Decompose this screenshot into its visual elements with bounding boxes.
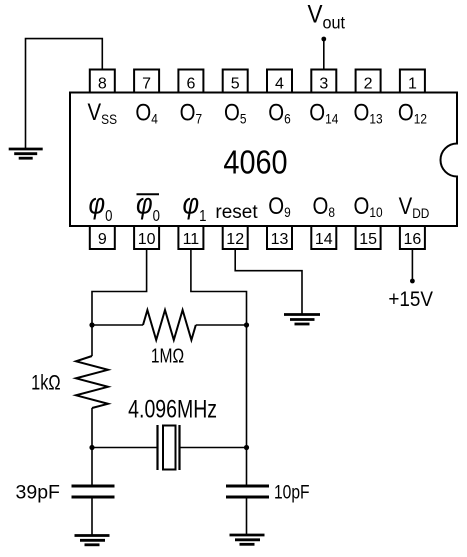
node Vout terminal dot — [321, 37, 326, 42]
pin label O5 — [224, 99, 246, 127]
wire pin 12 to ground — [235, 249, 302, 314]
value label 4.096MHz — [128, 395, 217, 423]
pin 6 — [178, 70, 203, 93]
svg-text:15: 15 — [359, 231, 377, 248]
svg-text:1MΩ: 1MΩ — [151, 345, 184, 367]
junction dot (crystal left / left rail) — [89, 445, 94, 450]
wire pin 11 to right rail — [191, 249, 247, 325]
value label 10pF — [274, 481, 310, 503]
svg-text:7: 7 — [142, 76, 151, 93]
junction dot (1MΩ left / left rail) — [89, 322, 94, 327]
pin 2 — [356, 70, 381, 93]
wire crystal right lead — [180, 447, 247, 449]
pin label O14 — [309, 99, 338, 127]
svg-text:6: 6 — [186, 76, 195, 93]
capacitor 39pF — [72, 486, 115, 497]
pin label O7 — [180, 99, 202, 127]
svg-text:13: 13 — [271, 231, 289, 248]
pin 14 — [311, 226, 336, 249]
pin label phi0 — [89, 187, 113, 226]
overline of phi0-bar — [137, 193, 160, 195]
node label Vout — [308, 0, 346, 32]
ground (under 10pF) — [230, 535, 265, 544]
ground (pin 12) — [284, 315, 320, 325]
value label 1kΩ — [31, 371, 61, 394]
pin label O13 — [354, 99, 383, 127]
crystal 4.096MHz — [158, 425, 180, 470]
wire Vout to pin 3 — [323, 39, 325, 70]
pin 5 — [223, 70, 248, 93]
pin label O6 — [268, 99, 290, 127]
junction dot (crystal right / right rail) — [244, 445, 249, 450]
pin 13 — [267, 226, 292, 249]
pin label O10 — [354, 192, 383, 220]
svg-text:2: 2 — [364, 76, 373, 93]
svg-text:8: 8 — [98, 76, 107, 93]
capacitor 10pF — [226, 486, 269, 497]
pin 4 — [267, 70, 292, 93]
wire left rail above 1kΩ — [91, 325, 93, 356]
op-amp U1 body (4060 IC outline with right-edge notch) — [70, 93, 457, 227]
ground (under 39pF) — [75, 536, 110, 545]
svg-text:11: 11 — [183, 231, 200, 248]
svg-text:39pF: 39pF — [16, 482, 61, 504]
wire 10pF to ground — [246, 497, 248, 534]
pin label phi0-bar — [136, 187, 160, 226]
wire pin 16 to +15V terminal — [411, 249, 413, 279]
svg-text:9: 9 — [98, 231, 107, 248]
svg-text:4: 4 — [275, 76, 284, 93]
pin label O12 — [398, 99, 427, 127]
svg-text:1kΩ: 1kΩ — [31, 371, 61, 394]
wire 39pF to ground — [91, 497, 93, 535]
pin label O9 — [268, 192, 290, 220]
resistor 1kΩ (vertical) — [76, 356, 108, 408]
wire crystal left lead — [92, 447, 158, 449]
wire pin 8 to top-left ground — [26, 39, 103, 148]
pin 11 — [178, 226, 203, 249]
value label 1MΩ — [151, 345, 184, 367]
pin 7 — [134, 70, 159, 93]
wire pin 10 to left rail — [92, 249, 147, 325]
junction dot (1MΩ right / right rail) — [244, 322, 249, 327]
svg-text:4.096MHz: 4.096MHz — [128, 395, 217, 423]
pin label VDD — [399, 192, 430, 221]
node +15V terminal dot — [410, 279, 415, 284]
svg-text:10pF: 10pF — [274, 481, 310, 503]
pin 8 — [90, 70, 115, 93]
pin label O4 — [135, 99, 157, 127]
pin 16 — [400, 226, 425, 249]
pin 9 — [90, 226, 115, 249]
svg-text:12: 12 — [226, 231, 244, 248]
wire right rail pins to crystal — [246, 325, 248, 486]
svg-text:reset: reset — [215, 202, 258, 223]
pin 15 — [356, 226, 381, 249]
svg-text:1: 1 — [408, 76, 417, 93]
pin 12 — [223, 226, 248, 249]
svg-text:14: 14 — [315, 231, 333, 248]
pin 1 — [400, 70, 425, 93]
svg-text:+15V: +15V — [388, 288, 433, 311]
svg-text:10: 10 — [138, 231, 156, 248]
resistor 1MΩ (horizontal) — [92, 310, 247, 340]
supply label +15V — [388, 288, 433, 311]
pin label VSS — [88, 98, 118, 127]
IC part number 4060 — [223, 144, 287, 181]
svg-text:5: 5 — [231, 76, 240, 93]
svg-text:16: 16 — [404, 231, 422, 248]
svg-text:3: 3 — [319, 76, 328, 93]
svg-text:4060: 4060 — [223, 144, 287, 181]
pin label phi1 — [183, 187, 207, 226]
pin 3 — [311, 70, 336, 93]
wire left rail below 1kΩ — [91, 408, 93, 486]
pin label O8 — [313, 192, 335, 220]
pin 10 — [134, 226, 159, 249]
ground (top left) — [9, 149, 43, 158]
